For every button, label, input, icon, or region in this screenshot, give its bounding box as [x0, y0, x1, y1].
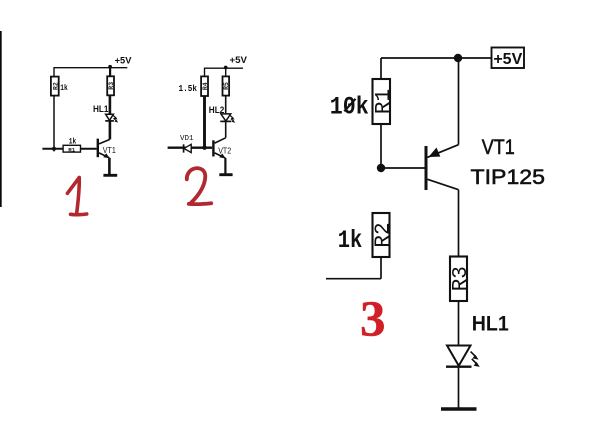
svg-text:1k: 1k	[60, 83, 68, 93]
svg-text:R2: R2	[52, 82, 59, 90]
wire: circuit 1 LED anode vertical (thick)	[109, 95, 112, 114]
wire: circuit 1 +5V top rail	[54, 67, 127, 69]
transistor VT1 (circuit 1, NPN)	[97, 139, 110, 159]
svg-text:1k: 1k	[69, 137, 77, 147]
wire: circuit 3 R1 top stub	[380, 58, 382, 79]
svg-text:R3: R3	[108, 82, 115, 90]
wire: circuit 3 +5V top rail	[381, 57, 492, 59]
svg-text:HL1: HL1	[472, 312, 509, 335]
svg-text:VT2: VT2	[218, 146, 231, 156]
wire: circuit 2 emitter vertical	[224, 158, 226, 174]
svg-text:+5V: +5V	[115, 55, 132, 66]
ground (circuit 3)	[441, 407, 477, 410]
node: circuit 2 rail junction	[224, 66, 228, 70]
node: circuit 1 base wire junction	[52, 147, 56, 151]
wire: circuit 3 input horizontal	[326, 278, 381, 280]
label 10k (circuit 3 R1 value, slashed zero)	[330, 93, 369, 122]
svg-text:+5V: +5V	[493, 51, 522, 68]
svg-text:R1: R1	[68, 146, 76, 153]
svg-text:HL1: HL1	[93, 104, 109, 114]
wire: circuit 1 left branch vertical	[53, 96, 55, 152]
wire: circuit 3 base wire	[381, 167, 425, 169]
wire: circuit 2 +5V top rail	[205, 67, 244, 69]
svg-text:VT1: VT1	[482, 136, 515, 159]
node: circuit 1 rail junction	[108, 65, 112, 69]
wire: circuit 2 right branch top stub	[225, 68, 227, 76]
wire: circuit 1 emitter vertical (thick)	[108, 158, 111, 174]
transistor VT2 (circuit 2, NPN)	[212, 138, 226, 159]
wire: circuit 3 collector vertical	[458, 190, 460, 257]
resistor R5 (circuit 2 right)	[223, 76, 231, 95]
resistor R3 (circuit 1 right)	[107, 76, 115, 95]
svg-text:VT1: VT1	[103, 145, 116, 155]
svg-text:R1: R1	[373, 89, 396, 114]
wire: circuit 2 left branch vertical (thick)	[203, 96, 206, 148]
ground (circuit 1)	[103, 174, 117, 177]
wire: circuit 3 emitter vertical	[458, 58, 460, 145]
wire: circuit 1 right branch top stub (thick)	[109, 66, 111, 76]
power symbol +5V box (circuit 3)	[492, 48, 525, 69]
resistor R1 (circuit 3, 10k)	[373, 79, 396, 124]
svg-text:1k: 1k	[338, 226, 363, 255]
wire: circuit 3 R1 bottom stub	[380, 124, 382, 168]
ground (circuit 2)	[219, 173, 232, 176]
wire: circuit 2 base input wire	[168, 146, 213, 148]
svg-text:TIP125: TIP125	[471, 166, 546, 189]
node: circuit 3 base junction	[377, 164, 385, 172]
wire: circuit 1 base wire right segment	[81, 148, 97, 150]
svg-text:VD1: VD1	[180, 135, 194, 143]
wire: circuit 1 base input wire left segment	[42, 148, 63, 150]
resistor R2 (circuit 1 left, 1k)	[51, 77, 59, 96]
diode VD1 (circuit 2)	[184, 144, 192, 152]
node: circuit 2 base junction	[202, 146, 206, 150]
wire: circuit 2 left branch top stub	[204, 68, 206, 77]
wire: circuit 2 collector vertical	[225, 121, 227, 138]
wire: circuit 3 R2 bottom stub	[380, 257, 382, 279]
red handwritten digit 2	[187, 168, 211, 204]
LED HL1 (circuit 3)	[446, 346, 480, 367]
node: circuit 3 top rail junction	[454, 54, 462, 62]
LED HL1 (circuit 1)	[105, 114, 118, 122]
resistor R4 (circuit 2 left, 1.5k)	[201, 76, 209, 96]
wire: circuit 1 left branch top stub	[53, 67, 55, 77]
wire: circuit 2 LED anode vertical	[225, 96, 227, 115]
resistor R3 (circuit 3)	[450, 257, 473, 302]
wire: circuit 1 collector vertical (thick)	[109, 121, 112, 139]
scan artifact edge line	[0, 31, 2, 207]
svg-text:R3: R3	[450, 266, 473, 291]
svg-text:3: 3	[360, 292, 386, 348]
svg-text:R2: R2	[373, 222, 396, 247]
resistor R2 (circuit 3, 1k)	[373, 213, 396, 257]
svg-text:R5: R5	[223, 82, 230, 90]
LED HL2 (circuit 2)	[220, 114, 235, 123]
svg-text:R4: R4	[202, 82, 209, 90]
wire: circuit 3 R3 bottom stub	[458, 301, 460, 346]
svg-text:1.5k: 1.5k	[179, 84, 198, 94]
red handwritten digit 1	[67, 178, 86, 215]
resistor R1 (circuit 1 base, 1k)	[63, 145, 80, 153]
transistor VT1 TIP125 (circuit 3, PNP)	[425, 145, 459, 190]
svg-text:+5V: +5V	[230, 55, 248, 66]
wire: circuit 3 LED cathode vertical	[458, 367, 460, 408]
